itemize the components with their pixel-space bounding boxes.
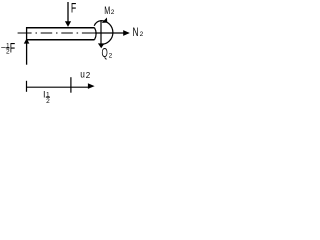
- svg-text:M: M: [104, 5, 110, 17]
- moment M2 arc (right semicircle, CCW arrow at top): [94, 21, 113, 45]
- svg-text:2: 2: [140, 31, 144, 38]
- svg-text:2: 2: [46, 98, 50, 105]
- svg-text:Q: Q: [102, 46, 108, 60]
- svg-text:u: u: [80, 70, 85, 81]
- reaction -1/2 F arrow: [24, 39, 30, 65]
- svg-text:N: N: [133, 27, 139, 39]
- beam top edge: [26, 27, 95, 29]
- svg-text:2: 2: [86, 71, 91, 80]
- label l/2: [43, 89, 50, 105]
- label N2: [133, 27, 144, 39]
- dimension arrowhead u2 (right): [88, 83, 95, 89]
- label M2: [104, 5, 115, 17]
- tick left end: [26, 81, 28, 92]
- tick at l/2: [70, 77, 72, 93]
- svg-text:2: 2: [111, 9, 115, 16]
- beam cut face (right rounded cap): [95, 28, 97, 40]
- centerline (dash-dot): [18, 32, 95, 34]
- label u2: [80, 70, 91, 81]
- beam left edge: [26, 27, 28, 40]
- normal force N2 arrow (right): [95, 30, 130, 36]
- label Q2: [102, 46, 113, 60]
- svg-text:F: F: [71, 1, 76, 16]
- M2 arrowhead (points left at arc top): [102, 18, 108, 23]
- svg-text:2: 2: [109, 52, 113, 59]
- beam bottom edge: [26, 39, 95, 41]
- svg-text:F: F: [10, 40, 15, 55]
- force F arrow: [65, 2, 71, 27]
- svg-text:l: l: [43, 89, 45, 99]
- shear force Q2 arrow (down): [98, 21, 105, 49]
- dimension line: [27, 86, 89, 88]
- label -1/2 F: [1, 40, 15, 55]
